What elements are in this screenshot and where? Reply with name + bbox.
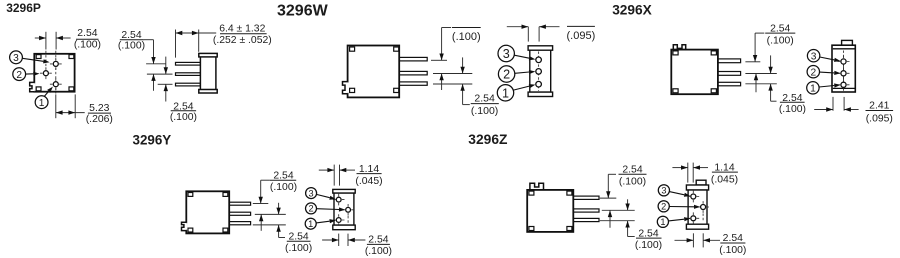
3296Y pin pitch ticks: [253, 203, 268, 205]
3296W front pin 1: [536, 81, 542, 87]
3296Y leader to pin 2: [317, 208, 340, 211]
3296Y lower pitch arrows: [278, 203, 280, 215]
3296P bottom dimension extension lines: [55, 94, 57, 118]
3296P leader to pin 3: [22, 58, 43, 61]
3296W front view pin centerline: [538, 52, 540, 92]
3296Y leader to pin 3: [316, 194, 329, 197]
svg-text:(.100): (.100): [452, 31, 481, 43]
3296X callout circle 3: [807, 50, 819, 62]
3296P side pin length dimension extension lines: [175, 30, 177, 58]
3296Y front pin offset dimension lines: [338, 234, 340, 246]
3296X front pin centerline: [843, 51, 845, 88]
svg-text:(.100): (.100): [779, 104, 806, 115]
svg-text:(.045): (.045): [355, 176, 382, 187]
svg-text:3: 3: [13, 53, 19, 64]
3296P side pin length dimension line: [176, 32, 217, 34]
3296Y leader to pin 1: [316, 221, 330, 223]
3296P top view side notch: [33, 83, 35, 91]
3296Y front pin 3: [336, 197, 341, 202]
3296X upper pitch bracket: [755, 32, 764, 34]
3296W leader to pin 3: [514, 55, 529, 58]
svg-text:(.100): (.100): [365, 246, 392, 257]
3296W leader to pin 2: [515, 72, 529, 73]
3296X pin pitch ticks: [745, 61, 760, 63]
3296Y body side notch: [185, 223, 187, 230]
3296Z lower pitch arrows: [627, 199, 629, 210]
svg-text:3296Z: 3296Z: [468, 132, 508, 147]
3296W front pin 3: [536, 57, 542, 63]
3296Y front pin 2 centerline: [347, 216, 349, 223]
svg-text:3296Y: 3296Y: [133, 132, 172, 147]
3296P top view body: [34, 54, 74, 92]
3296X callout circle 1: [807, 82, 819, 94]
3296X front view body: [832, 45, 855, 92]
3296X side view pins: [718, 59, 741, 63]
3296X body top bump: [673, 45, 685, 50]
3296P top dimension arrows: [35, 37, 46, 39]
3296Z front view top tab: [696, 180, 706, 185]
3296Y side view body: [186, 191, 229, 233]
3296W upper pitch bracket (.100): [442, 27, 452, 29]
svg-text:3: 3: [309, 188, 314, 198]
3296X body corner standoffs: [673, 51, 678, 55]
3296P leader to pin 2: [26, 73, 34, 75]
3296Z front view body: [686, 185, 708, 190]
svg-text:2: 2: [661, 202, 666, 212]
3296Z front pin 2: [701, 205, 706, 210]
svg-text:(.100): (.100): [619, 176, 646, 187]
3296Z upper pitch bracket: [608, 173, 616, 175]
svg-text:2.41: 2.41: [869, 100, 889, 111]
3296Z body corner standoffs: [529, 191, 534, 195]
3296Y front view body: [333, 189, 355, 193]
3296Z front pin 3: [691, 194, 696, 199]
3296Z leader to pin 1: [668, 219, 684, 221]
3296P pin 3 pad: [53, 61, 58, 66]
3296Z callout circle 3: [658, 185, 669, 196]
3296P top dimension extension lines: [45, 32, 47, 50]
svg-text:3: 3: [661, 186, 666, 196]
3296P callout circle 2: [13, 68, 26, 81]
3296Z side view pins: [573, 196, 599, 199]
3296Z front offset dimension lines: [687, 163, 689, 183]
svg-text:1: 1: [308, 219, 313, 229]
3296X leader to pin 1: [819, 86, 834, 88]
3296Y front pin 1: [336, 218, 341, 223]
svg-text:(.100): (.100): [719, 245, 746, 256]
3296Z front pin 2 centerline: [702, 214, 704, 222]
3296X front view cap lines: [833, 48, 855, 50]
svg-text:3: 3: [503, 47, 510, 61]
3296X front pin 2: [841, 71, 846, 76]
3296Z body top bump: [530, 183, 544, 190]
3296W body corner standoffs: [350, 47, 355, 51]
3296P side upper pitch leader and arrows: [144, 39, 154, 41]
svg-text:(.100): (.100): [767, 35, 794, 46]
3296P callout circle 1: [35, 96, 48, 109]
svg-text:(.252 ± .052): (.252 ± .052): [213, 35, 272, 46]
svg-text:(.100): (.100): [170, 112, 197, 123]
3296X callout circle 2: [807, 66, 819, 78]
3296Z callout circle 1: [657, 216, 668, 227]
3296W body side notch: [347, 83, 349, 93]
3296Z leader to pin 2: [669, 206, 694, 208]
svg-text:2.54: 2.54: [474, 93, 495, 105]
3296Y callout circle 2: [306, 203, 317, 214]
3296X side view body: [671, 50, 718, 95]
3296P top view corner standoffs: [36, 55, 41, 59]
3296W leader to pin 1: [513, 86, 529, 90]
svg-text:2: 2: [308, 204, 313, 214]
3296W side view body: [348, 46, 400, 98]
3296Y upper pitch bracket: [261, 179, 270, 181]
svg-text:3: 3: [811, 51, 817, 62]
3296X front pin 1: [841, 82, 846, 87]
svg-text:1: 1: [660, 217, 665, 227]
3296P side lower pitch arrows: [165, 57, 167, 75]
svg-text:(.095): (.095): [567, 30, 596, 42]
svg-text:(.206): (.206): [86, 114, 113, 125]
3296P callout circle 3: [10, 51, 23, 64]
3296X front pin 3: [841, 59, 846, 64]
3296P bottom dimension line and arrows: [56, 112, 85, 114]
3296W front view body: [528, 46, 553, 50]
3296X front view top tab: [842, 40, 853, 45]
3296Z leader to pin 3: [669, 192, 684, 195]
svg-text:(.100): (.100): [635, 240, 662, 251]
svg-text:(.045): (.045): [711, 174, 738, 185]
svg-text:(.095): (.095): [866, 113, 893, 124]
3296P centerlines: [45, 51, 47, 69]
svg-text:6.4 ± 1.32: 6.4 ± 1.32: [219, 23, 265, 34]
svg-text:(.100): (.100): [74, 39, 101, 50]
svg-text:2.54: 2.54: [77, 28, 97, 39]
svg-text:3296X: 3296X: [612, 2, 652, 17]
svg-text:(.100): (.100): [270, 182, 297, 193]
3296W upper pitch label (.100): [452, 27, 481, 29]
svg-text:1: 1: [502, 86, 509, 100]
svg-text:2: 2: [810, 67, 816, 78]
3296X leader to pin 2: [820, 71, 835, 74]
3296W lower pitch arrows: [462, 57, 464, 73]
svg-text:5.23: 5.23: [89, 103, 109, 114]
3296Y callout circle 1: [305, 218, 316, 229]
3296Z callout circle 2: [658, 201, 669, 212]
svg-text:3296W: 3296W: [277, 2, 329, 19]
svg-text:2: 2: [16, 70, 22, 81]
svg-text:(.100): (.100): [118, 40, 145, 51]
svg-text:(.100): (.100): [471, 105, 498, 117]
3296W callout circle 1: [497, 85, 513, 101]
svg-text:(.100): (.100): [285, 243, 312, 254]
3296W callout circle 3: [498, 45, 514, 61]
3296Z side view body: [527, 190, 573, 232]
3296Z pin pitch ticks: [600, 197, 617, 199]
3296P side view pins: [176, 62, 201, 65]
3296W pin pitch ticks: [431, 59, 447, 61]
3296X front width dimension lines: [832, 97, 834, 111]
svg-text:1: 1: [810, 83, 816, 94]
3296Y side view pins: [229, 202, 250, 205]
3296X lower pitch arrows: [770, 55, 772, 73]
3296P side view body: [200, 57, 216, 90]
svg-text:3296P: 3296P: [6, 1, 41, 15]
3296W front pin 2: [536, 69, 542, 75]
3296W callout circle 2: [498, 66, 514, 82]
3296P side pin pitch ticks: [146, 63, 166, 65]
3296Y body corner standoffs: [188, 193, 193, 197]
3296X leader to pin 3: [820, 57, 835, 60]
3296Z front pin 1: [691, 216, 696, 221]
svg-text:1: 1: [39, 98, 45, 109]
3296Y front pin 2: [346, 207, 351, 212]
3296P pin 1 pad: [53, 82, 58, 87]
3296P pin 2 pad: [43, 71, 48, 76]
3296W front width dimension lines: [527, 27, 529, 42]
3296W front width label (.095): [567, 25, 595, 27]
3296Y callout circle 3: [306, 188, 317, 199]
3296W side view pins: [399, 57, 427, 61]
svg-text:2: 2: [503, 68, 510, 82]
3296Y front offset dimension lines: [333, 165, 335, 186]
3296Z front pin offset dimension lines: [692, 233, 694, 247]
3296P leader to pin 1: [44, 91, 48, 96]
